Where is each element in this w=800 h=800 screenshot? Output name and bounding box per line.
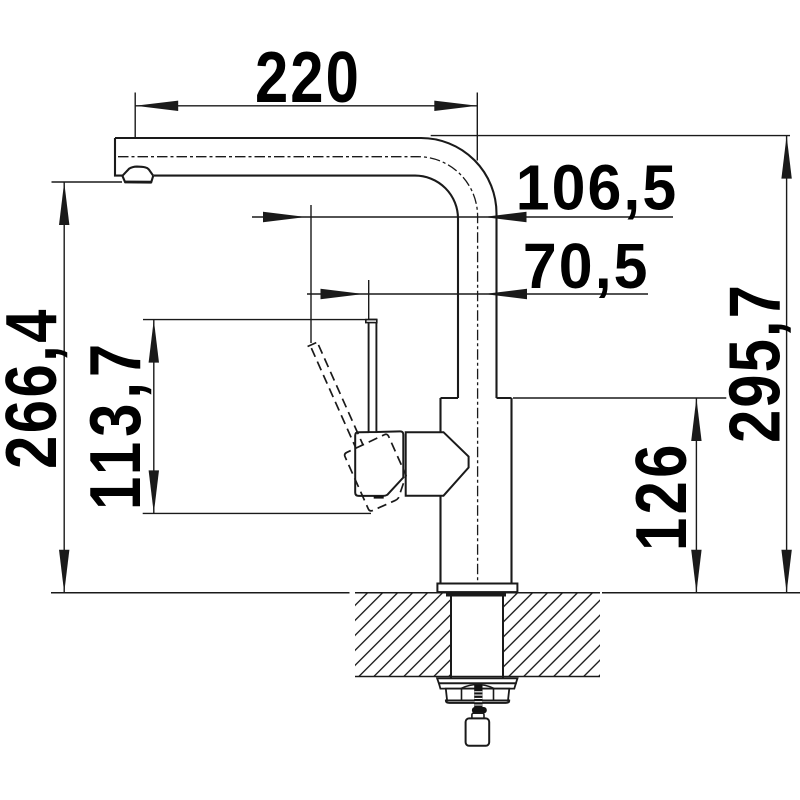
svg-text:126: 126 [622,441,703,551]
svg-text:220: 220 [255,38,361,119]
svg-text:70,5: 70,5 [523,231,650,303]
svg-text:266,4: 266,4 [0,307,72,469]
svg-text:295,7: 295,7 [715,283,796,443]
svg-text:106,5: 106,5 [516,152,679,224]
svg-text:113,7: 113,7 [76,339,157,510]
